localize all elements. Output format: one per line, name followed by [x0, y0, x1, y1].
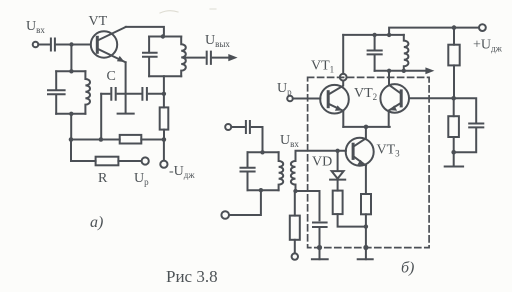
- wire resistor to rail1: [163, 130, 165, 140]
- capacitor input coupling a: [51, 39, 55, 51]
- svg-text:VT: VT: [89, 14, 108, 29]
- VT3 base bar: [352, 144, 355, 158]
- node tank1 bottom: [69, 112, 73, 116]
- resistor R1 divider: [448, 45, 459, 66]
- node rail1 right: [162, 137, 167, 142]
- wire resistor to terminal: [294, 240, 296, 253]
- transistor VT2 circle: [380, 84, 409, 113]
- terminal bottom-left b: [221, 211, 229, 219]
- tank2 left branch lower: [148, 57, 150, 76]
- capacitor C right: [142, 88, 147, 100]
- wire bottom node to ground: [453, 152, 455, 166]
- node tank b bottom right: [402, 69, 406, 73]
- VT base bar: [96, 37, 99, 52]
- resistor vertical a: [160, 107, 169, 129]
- collector terminal circle VT1: [340, 74, 347, 81]
- wire resistor VD chain to join: [338, 214, 366, 227]
- node resistor join: [364, 224, 368, 228]
- terminal input b: [225, 124, 231, 130]
- terminal +Udz: [479, 24, 486, 31]
- node rail1 mid: [99, 137, 104, 142]
- resistor R rail2: [96, 157, 119, 166]
- VT3 collector: [353, 127, 366, 147]
- wire secondary bottom down: [294, 191, 296, 216]
- node tank b bottom left: [387, 69, 391, 73]
- wire rail2 right: [118, 160, 141, 162]
- terminal Up b: [287, 96, 293, 102]
- tank2 top rail: [149, 36, 181, 38]
- wire emitter down: [125, 62, 127, 113]
- tank1 left branch lower wire: [55, 95, 57, 114]
- wire tank2 bottom to C node: [163, 76, 165, 94]
- wire Up to VT1 base: [293, 98, 320, 100]
- VT3 emitter: [353, 156, 366, 166]
- node base a: [69, 42, 73, 46]
- wire secondary node to bypass cap: [296, 191, 320, 220]
- wire C-line left vertical down: [100, 94, 102, 140]
- tank b left branch upper: [374, 35, 376, 50]
- VT2 base wire to divider: [409, 97, 454, 99]
- wire inductor tap to output cap: [185, 57, 205, 59]
- diode VD cathode bar: [330, 179, 345, 181]
- wire cap down and left: [454, 128, 477, 153]
- wire cap to ground: [319, 227, 321, 259]
- label Uвх (input a): [26, 19, 45, 35]
- terminal input a: [33, 42, 39, 48]
- label +Uдж: [473, 38, 503, 54]
- VT2 base bar: [400, 91, 403, 106]
- wire VT3 emitter down: [365, 166, 367, 194]
- resistor below VD: [333, 191, 343, 215]
- wire output: [213, 57, 229, 59]
- capacitor primary tank: [241, 168, 255, 172]
- VT emitter arrow: [117, 56, 125, 62]
- VT collector: [97, 27, 126, 41]
- svg-text:R: R: [98, 171, 108, 186]
- svg-text:а): а): [90, 214, 103, 231]
- wire tank1 bottom to rail1: [70, 114, 72, 140]
- svg-text:VD: VD: [312, 155, 332, 170]
- node +Udz rail: [452, 25, 457, 30]
- resistor R2 divider: [448, 116, 459, 137]
- node secondary bottom: [293, 189, 297, 193]
- svg-text:б): б): [401, 260, 414, 277]
- label Uвх (input b): [280, 133, 299, 149]
- dashed box: [308, 77, 430, 247]
- label R: [98, 171, 108, 186]
- label VD: [312, 155, 332, 170]
- wire VT1 collector to tank top: [342, 35, 344, 74]
- node primary top: [260, 150, 264, 154]
- label b): [401, 260, 414, 277]
- transistor VT3 circle: [346, 138, 374, 166]
- ground bypass cap: [312, 258, 328, 260]
- node tank1 top: [69, 69, 73, 73]
- terminal -Udz: [160, 161, 167, 168]
- wire cap to primary tank: [252, 127, 263, 152]
- wire C-line left segment: [101, 93, 109, 95]
- inductor transformer primary: [279, 152, 284, 190]
- wire emitter resistor to join: [365, 214, 367, 226]
- tank1 left branch upper wire: [55, 71, 57, 90]
- tank2 left branch upper: [148, 37, 150, 53]
- VT1 base bar: [327, 92, 330, 107]
- wire rail2 left vertical: [71, 140, 96, 162]
- node on dashed bottom left: [317, 245, 322, 250]
- capacitor tank2: [143, 53, 157, 57]
- node tank2 top: [161, 34, 165, 38]
- wire secondary top to VT3 base: [296, 151, 346, 161]
- node VT3 base: [335, 149, 339, 153]
- wire terminal to primary bottom: [229, 190, 261, 215]
- capacitor tank b: [368, 51, 382, 55]
- wire feedback arrow: [404, 70, 426, 72]
- wire rail1 left: [71, 139, 120, 141]
- label VT1: [311, 59, 334, 75]
- label VT2: [354, 86, 377, 102]
- label Uвых: [205, 33, 230, 49]
- node primary bottom: [259, 188, 263, 192]
- VT emitter: [97, 49, 125, 63]
- transistor VT1 circle: [320, 85, 349, 114]
- smudge top2: [210, 8, 216, 10]
- terminal bottom b: [292, 253, 298, 259]
- node divider: [451, 96, 456, 101]
- wire join to ground: [365, 227, 367, 260]
- wire collector rail to tank2: [126, 27, 164, 36]
- inductor tank1: [85, 71, 90, 114]
- node emitter rail: [364, 125, 369, 130]
- resistor VT3 emitter: [361, 194, 371, 214]
- arrow output Uвых: [228, 54, 237, 61]
- node tank b top right: [387, 33, 391, 37]
- node C-line right: [162, 92, 166, 96]
- label a): [90, 214, 103, 231]
- label -Uдж: [169, 164, 195, 180]
- ground emitter a: [118, 113, 134, 115]
- wire cap to base VT: [57, 44, 91, 46]
- caption Рис 3.8: [166, 267, 218, 286]
- emitter rail: [343, 126, 389, 128]
- inductor tank2: [181, 37, 186, 77]
- wire base node down to diode: [337, 151, 339, 171]
- tank b top rail: [343, 34, 404, 36]
- capacitor divider bypass: [469, 124, 483, 128]
- wire rail1 right down to -Udz terminal: [163, 140, 165, 161]
- wire input to coupling cap: [38, 44, 49, 46]
- VT1 emitter arrow: [335, 105, 343, 110]
- VT3 emitter arrow: [357, 160, 365, 165]
- resistor rail1: [120, 135, 142, 144]
- wire input b: [231, 126, 244, 128]
- label VT: [89, 14, 108, 29]
- wire secondary bottom: [295, 185, 297, 191]
- node rail1 left: [69, 137, 74, 142]
- tank b left branch lower: [374, 55, 376, 71]
- wire VT1 emitter down: [342, 111, 344, 127]
- svg-text:C: C: [107, 69, 116, 84]
- wire C-line right segment: [149, 93, 164, 95]
- wire VT2 emitter down: [388, 111, 390, 127]
- wire base node down to tank1: [70, 45, 72, 72]
- wire C-line middle segment: [118, 93, 141, 95]
- primary tank bottom rail: [248, 189, 279, 191]
- inductor transformer secondary: [291, 161, 296, 185]
- label C: [107, 69, 116, 84]
- inductor tank b: [404, 35, 409, 71]
- ground divider: [445, 166, 463, 168]
- resistor below secondary: [290, 216, 300, 240]
- tank b bottom rail: [375, 70, 404, 72]
- VT2 emitter arrow: [390, 105, 398, 110]
- label Up a: [134, 171, 149, 187]
- node on dashed bottom right: [363, 245, 368, 250]
- ground VT3: [358, 258, 373, 260]
- arrow feedback: [425, 67, 434, 74]
- primary tank top rail: [248, 151, 279, 153]
- primary tank left branch upper: [247, 152, 249, 167]
- node tank b top left: [372, 33, 376, 37]
- label Up b: [277, 81, 292, 97]
- wire R2 to bottom node: [453, 137, 455, 152]
- tank1 bottom rail: [56, 113, 85, 115]
- wire rail1 right: [141, 139, 164, 141]
- node divider bottom: [451, 150, 456, 155]
- wire tank to +Udz rail: [389, 28, 479, 35]
- capacitor C left: [111, 88, 115, 100]
- wire rail to R1: [453, 28, 455, 45]
- svg-text:Рис 3.8: Рис 3.8: [166, 267, 218, 286]
- capacitor tank1: [48, 90, 65, 94]
- wire divider node to cap branch: [454, 98, 477, 123]
- transistor VT circle: [91, 31, 117, 57]
- capacitor bypass left: [313, 223, 327, 228]
- tank2 bottom rail: [149, 75, 181, 77]
- VT1 emitter: [328, 104, 343, 111]
- VT1 collector: [328, 81, 343, 95]
- label VT3: [377, 143, 401, 159]
- capacitor output coupling: [207, 52, 211, 64]
- wire R1 to divider node: [453, 65, 455, 98]
- smudge top: [160, 11, 178, 13]
- terminal Up a: [142, 157, 149, 164]
- VT2 collector: [389, 71, 401, 94]
- VT2 emitter: [389, 103, 402, 111]
- primary tank left branch lower: [247, 172, 249, 190]
- tank1 top rail: [56, 70, 85, 72]
- wire node to resistor vertical: [163, 94, 165, 108]
- diode VD: [332, 171, 344, 179]
- wire diode to resistor: [337, 180, 339, 191]
- wire node to R2: [453, 98, 455, 116]
- capacitor input coupling b: [246, 121, 250, 133]
